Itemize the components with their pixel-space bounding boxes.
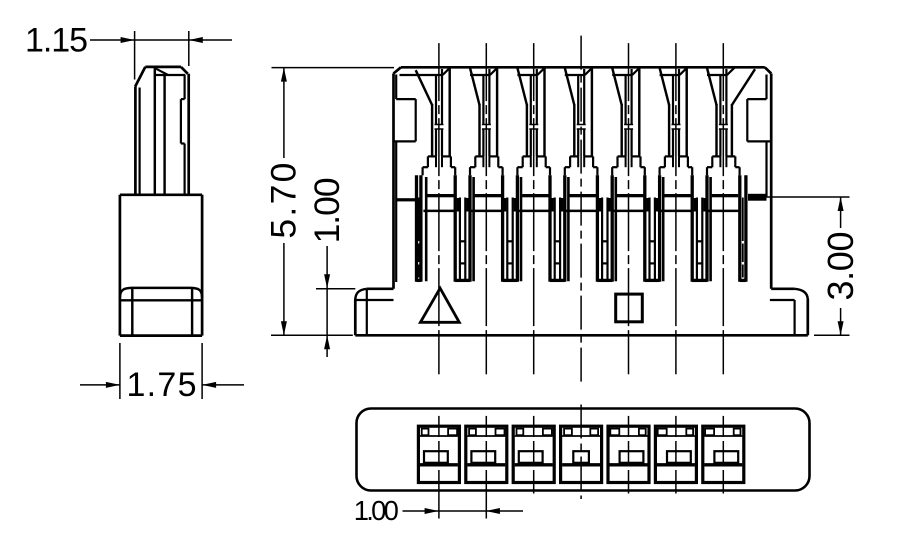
side view: base body xyxy=(120,195,202,336)
front view: channel between pins 4 and 5 xyxy=(597,175,612,281)
front view: orientation square mark xyxy=(616,294,643,322)
svg-text:3.00: 3.00 xyxy=(820,232,861,301)
dimension 3.00 xyxy=(767,197,861,335)
bottom view centerline pin 3 xyxy=(533,416,535,437)
bottom view centerline pin 6 xyxy=(675,416,677,437)
bottom view: contact cell 2 xyxy=(466,426,507,482)
front view: channel between pins 2 and 3 xyxy=(503,175,518,281)
svg-text:1.00: 1.00 xyxy=(307,177,347,243)
bottom view: contact cell 6 xyxy=(655,426,696,482)
front view: left flange xyxy=(355,289,393,336)
front view: housing outline xyxy=(394,67,772,288)
dimension 5.70 xyxy=(264,68,394,336)
dimension 1.00 (flange height) xyxy=(307,177,355,357)
front view: right wall inner lines and notch xyxy=(747,75,771,198)
svg-text:1.75: 1.75 xyxy=(127,366,197,404)
front view: channel between pins 5 and 6 xyxy=(645,175,660,281)
centerline pin 4 xyxy=(580,36,582,386)
front view: right flange xyxy=(770,289,808,336)
bottom view: contact cell 5 xyxy=(608,426,649,482)
bottom view: contact cell 4 xyxy=(561,426,602,482)
centerline pin 1 xyxy=(438,43,440,335)
front view: bottom edge xyxy=(355,334,808,337)
bottom view: housing outline xyxy=(357,409,810,491)
centerline pin 7 xyxy=(722,43,724,335)
bottom view centerline pin 2 xyxy=(485,416,487,437)
centerline pin 6 xyxy=(675,43,677,335)
centerline pin 2 xyxy=(485,43,487,335)
front view: cavity sills xyxy=(423,210,738,212)
front view: pin 2 terminal cavity xyxy=(470,68,503,176)
bottom view centerline pin 4 xyxy=(580,405,582,500)
front view: pin 3 terminal cavity xyxy=(517,68,550,176)
side view: mating post outline xyxy=(135,67,189,195)
front view: pin 1 terminal cavity xyxy=(400,68,456,176)
front view: pin 4 terminal cavity xyxy=(565,68,598,176)
dimension 1.00 (pitch) xyxy=(354,495,523,526)
side view: dimension 1.15 xyxy=(25,22,232,80)
svg-text:1.15: 1.15 xyxy=(25,22,88,60)
bottom view: contact cell 3 xyxy=(513,426,554,482)
front view: polarity triangle mark xyxy=(420,288,459,322)
front view: channel between pins 6 and 7 xyxy=(692,175,707,281)
side view: latch recess xyxy=(181,99,185,143)
bottom view centerline pin 7 xyxy=(722,416,724,437)
side view: dimension 1.75 xyxy=(80,343,244,404)
front view: right end channel xyxy=(740,175,746,281)
front view: left end channel xyxy=(417,175,711,281)
front view: contact shelf ledges xyxy=(396,194,766,202)
bottom view centerline pin 1 xyxy=(438,416,440,437)
front view: pin 5 terminal cavity xyxy=(612,68,645,176)
front view: pin 7 terminal cavity xyxy=(707,68,755,176)
cavity left walls xyxy=(426,177,710,281)
front view: channel between pins 1 and 2 xyxy=(455,175,470,281)
bottom view: contact cell 1 xyxy=(418,426,459,482)
svg-text:1.00: 1.00 xyxy=(354,495,399,526)
bottom view centerline pin 5 xyxy=(628,416,630,437)
front view: left wall inner lines and notch xyxy=(394,75,416,283)
bottom view: contact cell 7 xyxy=(703,426,744,482)
centerline pin 3 xyxy=(533,43,535,335)
front view: pin 6 terminal cavity xyxy=(660,68,693,176)
svg-text:5.70: 5.70 xyxy=(264,163,304,239)
front view: channel between pins 3 and 4 xyxy=(550,175,565,281)
centerline pin 5 xyxy=(628,43,630,335)
